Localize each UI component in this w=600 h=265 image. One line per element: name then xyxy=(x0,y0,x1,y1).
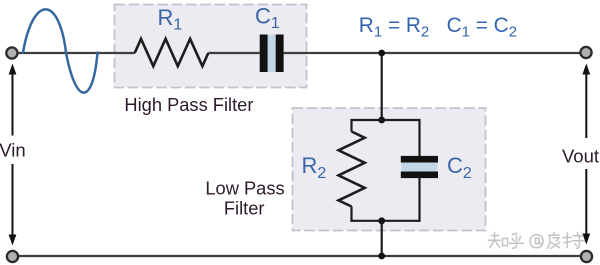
wire network down to bottom rail xyxy=(381,221,383,256)
svg-text:Vin: Vin xyxy=(0,139,26,160)
Vin measurement arrow lower xyxy=(12,164,14,236)
resistor R1 xyxy=(135,39,209,66)
wire R2 bottom stub xyxy=(350,207,352,222)
sine wave source xyxy=(23,9,98,92)
wire from top rail down to parallel network xyxy=(381,53,383,120)
terminal input top xyxy=(6,47,17,58)
capacitor C1 xyxy=(268,35,276,73)
low pass filter box xyxy=(293,108,486,231)
svg-text:Low Pass: Low Pass xyxy=(205,178,284,199)
svg-text:Filter: Filter xyxy=(224,198,265,219)
svg-text:Vout: Vout xyxy=(562,146,599,167)
terminal output top xyxy=(580,47,591,58)
wire top rail middle segment xyxy=(208,52,259,54)
resistor R2 xyxy=(339,132,365,207)
terminal output bottom xyxy=(581,251,592,262)
Vout measurement arrow lower xyxy=(585,169,587,234)
Vout measurement arrow upper xyxy=(585,73,587,138)
svg-text:R1 = R2 C1 = C2: R1 = R2 C1 = C2 xyxy=(359,14,517,40)
node junction bottom of network xyxy=(378,217,385,224)
watermark zhihu @pite xyxy=(489,233,585,249)
wire C2 top stub xyxy=(418,119,420,156)
capacitor C2 xyxy=(401,162,437,171)
wire bottom rail xyxy=(19,255,580,257)
svg-text:High Pass Filter: High Pass Filter xyxy=(124,94,253,115)
wire R2 top stub xyxy=(350,119,352,132)
wire top rail right segment xyxy=(284,52,580,54)
node junction bottom rail xyxy=(378,253,385,260)
wire network bottom bar xyxy=(352,220,420,222)
node junction top of network xyxy=(378,117,385,124)
wire top rail left segment xyxy=(19,52,135,54)
wire network top bar xyxy=(352,119,420,121)
high pass filter box xyxy=(115,5,307,88)
wire C2 bottom stub xyxy=(418,178,420,222)
node junction top rail xyxy=(378,50,385,57)
Vin measurement arrow upper xyxy=(12,73,14,136)
terminal input bottom xyxy=(7,251,18,262)
